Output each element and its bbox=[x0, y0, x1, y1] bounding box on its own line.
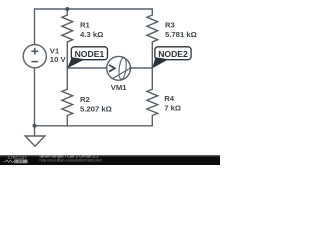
VM1 meter coil ellipse bbox=[118, 57, 127, 80]
resistor R2 bbox=[62, 68, 73, 126]
NODE2 pointer wedge to junction bbox=[152, 57, 168, 68]
VM1 meter needle bbox=[112, 67, 131, 78]
svg-text:R1: R1 bbox=[80, 20, 91, 29]
svg-text:NODE1: NODE1 bbox=[75, 49, 105, 59]
junction dot top of R1 bbox=[65, 7, 69, 11]
node NODE1 flag bbox=[67, 47, 107, 68]
wire middle left (NODE1 to VM1) bbox=[67, 67, 106, 69]
svg-text:NODE2: NODE2 bbox=[158, 49, 188, 59]
svg-text:10 V: 10 V bbox=[50, 55, 67, 64]
ground bbox=[25, 136, 45, 146]
svg-text:7 kΩ: 7 kΩ bbox=[164, 104, 181, 113]
svg-text:R3: R3 bbox=[165, 21, 175, 30]
VM1 positive-terminal chevron bbox=[109, 65, 115, 72]
resistor R1 bbox=[62, 9, 73, 68]
wire top horizontal bbox=[35, 8, 153, 10]
resistor R3 bbox=[147, 9, 158, 68]
svg-text:5.207 kΩ: 5.207 kΩ bbox=[80, 105, 112, 114]
voltmeter VM1 bbox=[107, 56, 133, 80]
watermark bar bbox=[0, 155, 220, 165]
svg-text:5.781 kΩ: 5.781 kΩ bbox=[165, 30, 197, 39]
voltage source V1 bbox=[23, 45, 46, 68]
svg-text:4.3 kΩ: 4.3 kΩ bbox=[80, 30, 103, 39]
resistor R4 bbox=[147, 68, 158, 126]
wire middle right (VM1 to NODE2) bbox=[131, 67, 153, 69]
wire bottom horizontal bbox=[35, 125, 153, 127]
svg-text:R2: R2 bbox=[80, 95, 90, 104]
svg-text:R4: R4 bbox=[164, 94, 175, 103]
svg-text:LAB: LAB bbox=[15, 160, 23, 164]
junction dot bottom left bbox=[33, 124, 37, 128]
svg-text:V1: V1 bbox=[50, 46, 60, 55]
node NODE2 flag bbox=[152, 47, 191, 69]
ground stub wire bbox=[34, 126, 36, 136]
VM1 needle arrowhead bbox=[129, 67, 133, 70]
wire left vertical lower (V1 to bottom wire) bbox=[34, 68, 36, 126]
CircuitLab logo text bbox=[4, 155, 28, 164]
wire left vertical upper (top wire to V1) bbox=[34, 9, 36, 45]
svg-text:VM1: VM1 bbox=[111, 83, 128, 92]
svg-text:http://circuitlab.com/c6d9d7dd: http://circuitlab.com/c6d9d7ddb1342 bbox=[40, 157, 103, 162]
NODE1 pointer wedge to junction bbox=[67, 57, 85, 68]
